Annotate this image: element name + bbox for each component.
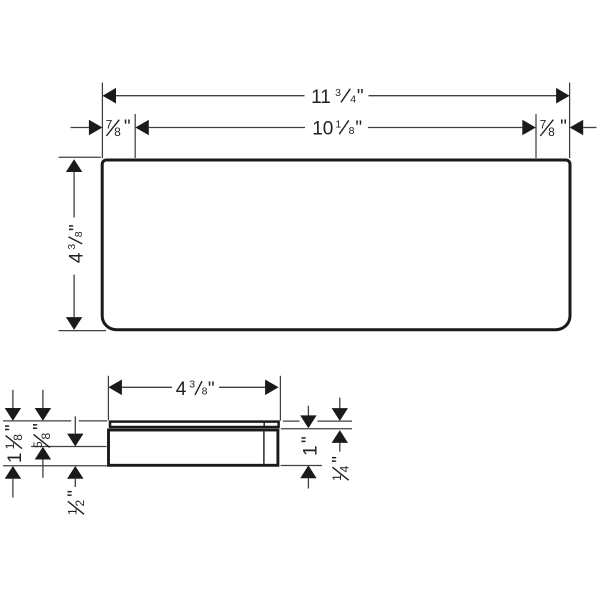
- shelf plate (side view): [110, 422, 279, 427]
- extension line right edge (vertical): [569, 83, 571, 159]
- dimension 11 3/4" line: [116, 95, 305, 97]
- 1/4" top leader: [339, 398, 341, 409]
- svg-text:4: 4: [338, 465, 352, 472]
- 1 1/8" top leader: [12, 390, 14, 409]
- svg-text:4: 4: [176, 379, 187, 400]
- arrow left of side 4 3/8": [108, 380, 122, 396]
- extension line inner left (vertical): [134, 114, 136, 158]
- svg-text:2: 2: [73, 499, 87, 506]
- 5/8" down arrow: [35, 408, 51, 421]
- 1" up arrow: [300, 465, 316, 478]
- 1" down arrow: [300, 415, 316, 428]
- svg-text:1: 1: [335, 119, 341, 131]
- 1" top leader: [307, 406, 309, 416]
- 1/4" up arrow: [332, 430, 348, 443]
- arrow down of 4 3/8": [66, 317, 82, 330]
- svg-text:11: 11: [311, 87, 331, 108]
- body inner line: [263, 432, 265, 464]
- 1/2" top leader: [74, 416, 76, 434]
- svg-text:4: 4: [350, 93, 356, 105]
- svg-text:8: 8: [548, 125, 555, 139]
- 1 1/8" up arrow: [5, 466, 21, 479]
- svg-text:": ": [299, 436, 320, 443]
- arrow left of 10 1/8": [135, 120, 149, 136]
- svg-text:8: 8: [11, 434, 25, 441]
- extension line right (vertical, side view width dim): [279, 376, 281, 421]
- label 4 3/8" (side view): [176, 379, 215, 401]
- arrow right of 11 3/4": [556, 88, 570, 104]
- extension line bottom-left horizontal: [59, 330, 107, 332]
- arrow up of 4 3/8": [66, 159, 82, 172]
- svg-text:1: 1: [301, 445, 322, 456]
- label 11 3/4": [311, 87, 363, 108]
- arrow right of 10 1/8": [522, 120, 536, 136]
- extension line top-left horizontal: [59, 156, 101, 158]
- left extension line middle (y=446.5): [31, 446, 107, 448]
- svg-text:": ": [65, 490, 86, 497]
- svg-text:": ": [124, 117, 131, 138]
- right extension line middle (y=428.7): [281, 428, 352, 430]
- right 7/8" tail line: [583, 127, 596, 129]
- dimension 4 3/8" line (side view): [122, 386, 172, 388]
- svg-text:1: 1: [5, 453, 26, 464]
- plate divider tick: [263, 421, 265, 428]
- dimension 10 1/8" line: [149, 127, 305, 129]
- svg-text:10: 10: [312, 118, 333, 139]
- arrow right of side 4 3/8": [265, 380, 279, 396]
- label 10 1/8": [312, 118, 362, 139]
- svg-text:": ": [3, 424, 24, 431]
- 1 1/8" bottom leader: [12, 479, 14, 498]
- svg-text:": ": [560, 117, 567, 138]
- label 1/4" rotated: [330, 456, 352, 481]
- vertical dimension 4 3/8" line (top view, left): [73, 172, 75, 218]
- 1/2" down arrow: [67, 434, 83, 447]
- label 1/2" rotated: [65, 490, 87, 515]
- svg-text:": ": [330, 456, 351, 463]
- right extension line top (y=421.1): [283, 420, 300, 422]
- label 5/8" rotated: [31, 423, 53, 448]
- shelf outline (top view): [102, 160, 570, 330]
- right 7/8" arrow (points left): [570, 120, 584, 136]
- svg-text:8: 8: [73, 231, 85, 237]
- bracket body (side view): [109, 430, 278, 465]
- svg-text:3: 3: [66, 244, 78, 250]
- svg-text:3: 3: [335, 87, 341, 99]
- svg-text:": ": [66, 224, 87, 231]
- svg-text:8: 8: [202, 386, 208, 398]
- svg-text:3: 3: [189, 379, 195, 391]
- left 7/8" tail line: [71, 127, 90, 129]
- svg-text:4: 4: [66, 252, 87, 263]
- 5/8" top leader: [42, 390, 44, 409]
- svg-text:": ": [208, 379, 215, 400]
- left extension line bottom (y=465.8): [3, 465, 107, 467]
- label 4 3/8" rotated (top view): [66, 224, 88, 263]
- 1/2" up arrow: [67, 466, 83, 479]
- 1/4" down arrow: [332, 408, 348, 421]
- 5/8" up arrow: [35, 447, 51, 460]
- svg-text:": ": [31, 423, 52, 430]
- 1/2" bottom leader: [74, 479, 76, 487]
- 1/4" mid leader: [339, 443, 341, 452]
- extension line left edge (vertical): [101, 83, 103, 159]
- label 7/8" left: [106, 117, 131, 139]
- right extension line bottom (y=465.5): [281, 465, 322, 467]
- svg-text:": ": [357, 87, 364, 108]
- label 1 1/8" rotated: [3, 424, 27, 463]
- left extension line top (y=421): [3, 420, 71, 422]
- svg-text:8: 8: [39, 433, 53, 440]
- 5/8" bottom leader: [42, 460, 44, 478]
- svg-text:": ": [355, 118, 362, 139]
- svg-text:8: 8: [114, 125, 121, 139]
- 1 1/8" down arrow: [5, 408, 21, 421]
- extension line left (vertical, side view width dim): [107, 376, 109, 420]
- label 7/8" right: [540, 117, 567, 139]
- arrow left of 11 3/4": [103, 88, 117, 104]
- svg-text:8: 8: [349, 125, 355, 137]
- label 1" rotated: [299, 436, 322, 456]
- 1" bottom leader: [307, 478, 309, 488]
- extension line inner right (vertical): [535, 114, 537, 158]
- left 7/8" arrow (points right): [89, 120, 103, 136]
